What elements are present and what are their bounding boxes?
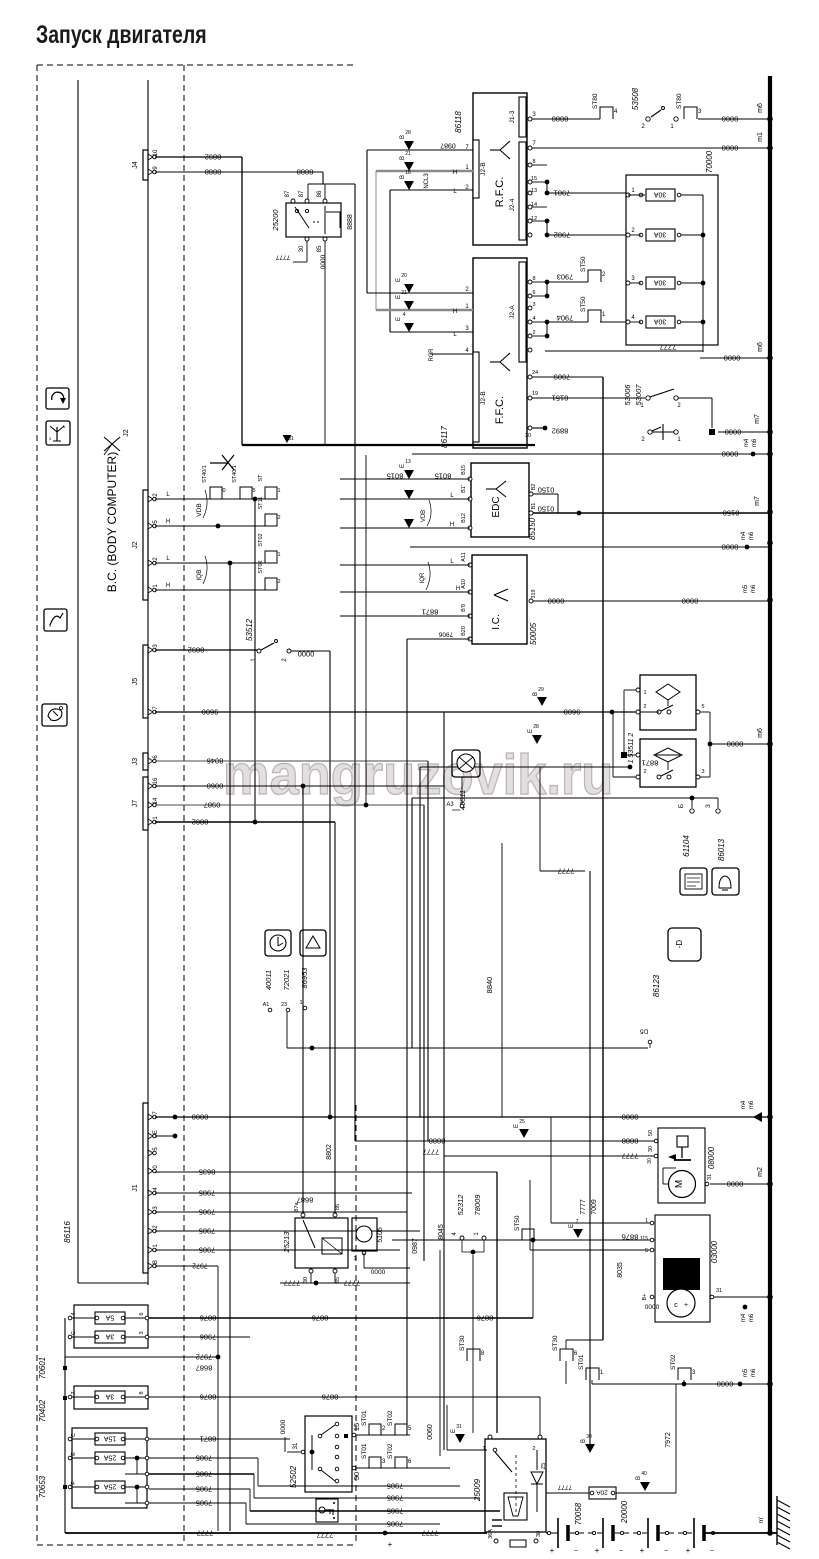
svg-text:50: 50 <box>352 1472 361 1480</box>
svg-text:5: 5 <box>252 488 255 494</box>
svg-text:ST80: ST80 <box>592 93 599 109</box>
svg-text:ST02: ST02 <box>387 1410 394 1426</box>
svg-text:H: H <box>453 170 457 176</box>
svg-text:7905: 7905 <box>196 1484 213 1493</box>
svg-text:8802: 8802 <box>192 817 209 826</box>
svg-text:0000: 0000 <box>280 1419 287 1434</box>
svg-text:53512: 53512 <box>245 618 254 641</box>
svg-text:28: 28 <box>405 130 411 136</box>
svg-text:Z5: Z5 <box>541 1463 547 1469</box>
svg-text:1: 1 <box>277 488 280 494</box>
svg-text:VDB: VDB <box>196 503 203 516</box>
svg-text:A3: A3 <box>446 802 454 808</box>
svg-text:+: + <box>550 1546 555 1555</box>
svg-text:7905: 7905 <box>199 1226 216 1235</box>
svg-text:70653: 70653 <box>38 1475 47 1498</box>
svg-text:0000: 0000 <box>722 143 739 152</box>
svg-text:7777: 7777 <box>622 1151 639 1160</box>
svg-text:8876: 8876 <box>322 1392 339 1401</box>
svg-text:1: 1 <box>299 1000 302 1006</box>
svg-text:A1: A1 <box>263 1002 270 1008</box>
svg-text:5A: 5A <box>105 1314 114 1321</box>
svg-text:21: 21 <box>405 151 411 157</box>
svg-text:9600: 9600 <box>202 707 219 716</box>
svg-text:0: 0 <box>222 488 225 494</box>
svg-text:0000: 0000 <box>717 1379 734 1388</box>
svg-text:c: c <box>674 1302 678 1309</box>
svg-text:IQR: IQR <box>420 572 426 583</box>
svg-text:08000: 08000 <box>707 1146 716 1169</box>
svg-text:20000: 20000 <box>620 1500 629 1524</box>
svg-text:-D: -D <box>675 940 684 949</box>
svg-text:3A: 3A <box>105 1333 114 1340</box>
svg-text:30A: 30A <box>653 191 666 198</box>
svg-text:8892: 8892 <box>552 426 569 435</box>
svg-text:ST80: ST80 <box>676 93 683 109</box>
svg-text:H: H <box>450 522 454 528</box>
svg-text:m4: m4 <box>744 438 750 447</box>
svg-text:B12: B12 <box>461 513 467 523</box>
svg-text:2: 2 <box>643 769 646 775</box>
svg-text:m6: m6 <box>749 1313 755 1322</box>
svg-text:Б: Б <box>678 804 685 808</box>
svg-text:61104: 61104 <box>682 835 691 857</box>
svg-text:m6: m6 <box>757 342 764 352</box>
svg-text:7777: 7777 <box>580 1199 587 1215</box>
svg-text:VDB: VDB <box>421 510 427 522</box>
svg-text:8888: 8888 <box>347 214 354 230</box>
svg-text:+: + <box>640 1546 645 1555</box>
svg-text:NCL3: NCL3 <box>424 173 430 189</box>
svg-text:H: H <box>456 586 460 592</box>
svg-text:8871: 8871 <box>642 758 659 767</box>
svg-text:m6: m6 <box>751 1368 757 1377</box>
svg-text:16: 16 <box>153 777 159 784</box>
svg-text:7777: 7777 <box>197 1528 214 1537</box>
svg-text:ST01: ST01 <box>361 1443 368 1459</box>
svg-text:0151: 0151 <box>552 393 569 402</box>
svg-text:7777: 7777 <box>344 1278 361 1287</box>
svg-text:0000: 0000 <box>548 596 565 605</box>
svg-text:D5: D5 <box>639 1028 648 1035</box>
svg-text:70000: 70000 <box>705 150 714 173</box>
svg-text:7906: 7906 <box>438 631 453 638</box>
svg-text:ST50: ST50 <box>580 296 587 312</box>
svg-text:ST11: ST11 <box>258 497 264 510</box>
svg-text:86953: 86953 <box>300 967 309 989</box>
svg-text:25200: 25200 <box>271 209 280 232</box>
svg-text:0000: 0000 <box>644 1303 659 1310</box>
svg-text:13: 13 <box>405 459 411 465</box>
svg-text:ST02: ST02 <box>387 1443 394 1459</box>
svg-text:+: + <box>686 1546 691 1555</box>
svg-text:7777: 7777 <box>317 1530 334 1539</box>
svg-text:7906: 7906 <box>200 1332 217 1341</box>
svg-text:25A: 25A <box>103 1454 116 1461</box>
svg-text:3: 3 <box>139 1331 145 1334</box>
svg-text:ST02: ST02 <box>258 560 264 573</box>
svg-text:0000: 0000 <box>722 449 739 458</box>
svg-text:31: 31 <box>288 436 294 442</box>
svg-text:50: 50 <box>648 1130 654 1136</box>
svg-text:ST40/1: ST40/1 <box>232 465 238 483</box>
svg-text:m6: m6 <box>751 584 757 593</box>
svg-text:4: 4 <box>71 1312 77 1315</box>
svg-text:0000: 0000 <box>724 353 741 362</box>
svg-text:10: 10 <box>153 149 159 156</box>
svg-text:8888: 8888 <box>297 167 314 176</box>
svg-text:0060: 0060 <box>427 1424 434 1440</box>
svg-text:8035: 8035 <box>617 1262 624 1278</box>
svg-text:0000: 0000 <box>682 596 699 605</box>
svg-text:ST01: ST01 <box>578 1354 585 1370</box>
svg-text:J1-3: J1-3 <box>509 110 516 123</box>
svg-text:C: C <box>71 1331 77 1335</box>
svg-text:5: 5 <box>701 704 704 710</box>
svg-text:m6: m6 <box>752 438 758 447</box>
svg-text:15: 15 <box>352 1423 361 1431</box>
svg-text:52312: 52312 <box>456 1194 465 1216</box>
svg-text:2: 2 <box>643 704 646 710</box>
svg-text:7905: 7905 <box>387 1519 404 1528</box>
svg-text:RCR: RCR <box>429 348 435 362</box>
svg-text:−: − <box>710 1548 714 1555</box>
svg-text:15A: 15A <box>103 1435 116 1442</box>
svg-text:8888: 8888 <box>429 1136 446 1145</box>
svg-text:8876: 8876 <box>622 1232 639 1241</box>
svg-text:86116: 86116 <box>63 1221 72 1243</box>
svg-text:7905: 7905 <box>199 1245 216 1254</box>
svg-text:20A: 20A <box>596 1489 608 1496</box>
svg-text:3: 3 <box>705 804 712 808</box>
svg-text:8888: 8888 <box>205 167 222 176</box>
svg-text:0150: 0150 <box>723 508 740 517</box>
svg-text:30A: 30A <box>653 318 666 325</box>
svg-text:1: 1 <box>643 690 646 696</box>
svg-text:8876: 8876 <box>200 1392 217 1401</box>
svg-text:7777: 7777 <box>284 1278 301 1287</box>
svg-text:I.C.: I.C. <box>491 614 502 630</box>
svg-text:B+: B+ <box>642 1294 648 1301</box>
svg-text:m5: m5 <box>743 584 749 593</box>
svg-text:7777: 7777 <box>422 1528 439 1537</box>
svg-text:78009: 78009 <box>473 1194 482 1216</box>
svg-text:4: 4 <box>403 312 406 318</box>
svg-text:86118: 86118 <box>454 111 463 133</box>
svg-text:53508: 53508 <box>631 87 640 110</box>
svg-text:70402: 70402 <box>38 1399 47 1422</box>
svg-text:0987: 0987 <box>440 142 456 149</box>
svg-text:50005: 50005 <box>529 622 538 645</box>
svg-text:28: 28 <box>533 724 539 730</box>
svg-text:85: 85 <box>317 245 323 252</box>
svg-text:m1: m1 <box>757 132 764 142</box>
svg-text:7905: 7905 <box>387 1481 404 1490</box>
svg-text:7902: 7902 <box>554 230 571 239</box>
svg-text:B1: B1 <box>531 503 537 510</box>
svg-text:6: 6 <box>532 290 535 296</box>
svg-text:m4: m4 <box>741 1313 747 1322</box>
svg-text:85150: 85150 <box>528 517 537 540</box>
svg-text:25: 25 <box>519 1119 525 1125</box>
svg-text:7905: 7905 <box>196 1498 213 1507</box>
svg-text:0000: 0000 <box>722 114 739 123</box>
svg-text:30A: 30A <box>653 231 666 238</box>
svg-text:8687: 8687 <box>196 1363 213 1372</box>
svg-text:J2-B: J2-B <box>480 391 487 404</box>
svg-text:8876: 8876 <box>312 1313 329 1322</box>
svg-text:52502: 52502 <box>289 1465 298 1488</box>
svg-text:H: H <box>453 309 457 315</box>
svg-text:15: 15 <box>531 176 537 182</box>
svg-text:7: 7 <box>71 1391 77 1394</box>
svg-text:7972: 7972 <box>196 1352 213 1361</box>
svg-text:0000: 0000 <box>298 649 315 658</box>
svg-text:86013: 86013 <box>717 838 726 861</box>
svg-text:30: 30 <box>525 433 531 439</box>
svg-text:−: − <box>619 1548 623 1555</box>
svg-text:8888: 8888 <box>622 1136 639 1145</box>
svg-text:25009: 25009 <box>473 1478 482 1502</box>
svg-text:21: 21 <box>401 290 407 296</box>
svg-text:7905: 7905 <box>196 1469 213 1478</box>
svg-text:H: H <box>166 583 170 589</box>
svg-text:8871: 8871 <box>200 1434 217 1443</box>
svg-text:87: 87 <box>299 190 305 197</box>
svg-text:7777: 7777 <box>557 1484 572 1491</box>
svg-text:8045: 8045 <box>438 1224 445 1240</box>
svg-text:8046: 8046 <box>207 756 224 765</box>
svg-text:ST02: ST02 <box>258 533 264 546</box>
svg-text:m': m' <box>758 1517 765 1524</box>
svg-text:8: 8 <box>532 159 535 165</box>
svg-text:87a: 87a <box>294 1201 300 1211</box>
svg-text:E: E <box>153 1130 159 1134</box>
svg-text:30A: 30A <box>653 279 666 286</box>
svg-text:0000: 0000 <box>727 739 744 748</box>
svg-text:F.F.C.: F.F.C. <box>494 396 506 424</box>
svg-text:0987: 0987 <box>412 1238 419 1254</box>
svg-text:0060: 0060 <box>207 781 224 790</box>
svg-text:H: H <box>166 519 170 525</box>
svg-text:18: 18 <box>405 170 411 176</box>
svg-text:86: 86 <box>317 190 323 197</box>
svg-text:m4: m4 <box>741 1100 747 1109</box>
svg-text:J1: J1 <box>132 1184 139 1192</box>
svg-text:7777: 7777 <box>660 342 677 351</box>
svg-text:0150: 0150 <box>538 485 555 494</box>
svg-text:J3: J3 <box>132 758 139 766</box>
svg-text:25213: 25213 <box>282 1231 291 1254</box>
svg-text:7777: 7777 <box>423 1147 440 1156</box>
svg-text:8892: 8892 <box>188 645 205 654</box>
svg-text:7905: 7905 <box>199 1188 216 1197</box>
svg-text:2: 2 <box>532 1446 535 1452</box>
svg-text:70058: 70058 <box>574 1502 583 1525</box>
svg-text:m7: m7 <box>754 496 761 506</box>
svg-text:36A: 36A <box>488 1529 494 1539</box>
svg-text:7009: 7009 <box>591 1199 598 1215</box>
svg-text:4: 4 <box>532 316 535 322</box>
svg-text:87: 87 <box>285 190 291 197</box>
svg-text:7777: 7777 <box>558 866 575 875</box>
svg-text:M: M <box>674 1180 685 1188</box>
svg-text:23: 23 <box>281 1002 287 1008</box>
svg-text:+: + <box>595 1546 600 1555</box>
svg-text:3A: 3A <box>105 1393 114 1400</box>
svg-text:Запуск двигателя: Запуск двигателя <box>36 21 207 49</box>
svg-text:IQB: IQB <box>196 569 203 580</box>
svg-text:J2: J2 <box>132 541 139 549</box>
svg-text:85: 85 <box>335 1277 341 1283</box>
svg-text:J2-A: J2-A <box>509 305 516 319</box>
svg-text:9600: 9600 <box>564 707 581 716</box>
svg-text:53006: 53006 <box>623 384 632 406</box>
svg-text:1: 1 <box>277 552 280 558</box>
svg-text:B20: B20 <box>461 626 467 636</box>
svg-text:14: 14 <box>153 797 159 804</box>
svg-text:m6: m6 <box>749 1100 755 1109</box>
svg-text:m4: m4 <box>741 531 747 540</box>
svg-text:13: 13 <box>531 188 537 194</box>
svg-text:31: 31 <box>456 1424 462 1430</box>
svg-text:8635: 8635 <box>199 1167 216 1176</box>
svg-text:8: 8 <box>139 1391 145 1394</box>
svg-text:0150: 0150 <box>538 504 555 513</box>
svg-text:J5: J5 <box>132 678 139 686</box>
svg-text:0000: 0000 <box>370 1268 385 1275</box>
svg-text:3: 3 <box>532 302 535 308</box>
svg-text:31: 31 <box>707 1174 713 1180</box>
svg-text:0000: 0000 <box>722 542 739 551</box>
svg-text:2: 2 <box>277 515 280 521</box>
svg-text:E: E <box>569 1224 575 1228</box>
svg-text:mangruzovik.ru: mangruzovik.ru <box>223 742 613 807</box>
svg-text:7905: 7905 <box>196 1453 213 1462</box>
svg-text:m2: m2 <box>757 1167 764 1177</box>
svg-text:m6: m6 <box>757 103 764 113</box>
svg-text:m5: m5 <box>743 1368 749 1377</box>
svg-text:7905: 7905 <box>199 1207 216 1216</box>
svg-text:B1': B1' <box>461 485 467 493</box>
svg-text:40011: 40011 <box>264 970 273 990</box>
svg-text:1: 1 <box>353 1256 356 1262</box>
svg-text:86123: 86123 <box>652 974 661 997</box>
svg-text:m7: m7 <box>754 414 761 424</box>
svg-text:8840: 8840 <box>485 977 494 994</box>
svg-text:5105: 5105 <box>377 1227 384 1243</box>
svg-text:7905: 7905 <box>387 1506 404 1515</box>
svg-text:7: 7 <box>576 1219 579 1225</box>
svg-text:8080: 8080 <box>552 114 569 123</box>
svg-text:31: 31 <box>293 1442 299 1449</box>
svg-text:m6: m6 <box>757 728 764 738</box>
svg-text:R.F.C.: R.F.C. <box>494 177 506 208</box>
svg-text:EDC: EDC <box>491 496 502 517</box>
svg-text:B2: B2 <box>531 484 537 491</box>
svg-text:ST50: ST50 <box>514 1215 521 1231</box>
svg-text:E: E <box>396 317 402 321</box>
svg-text:7904: 7904 <box>557 313 574 322</box>
svg-text:20: 20 <box>401 273 407 279</box>
svg-text:J2: J2 <box>123 429 130 437</box>
svg-text:C: C <box>71 1433 77 1437</box>
svg-text:0000: 0000 <box>192 1112 209 1121</box>
svg-text:J2-4: J2-4 <box>509 198 516 211</box>
svg-text:8: 8 <box>532 276 535 282</box>
svg-text:8876: 8876 <box>477 1313 494 1322</box>
svg-text:8015: 8015 <box>387 471 404 480</box>
svg-text:m6: m6 <box>749 531 755 540</box>
svg-text:7903: 7903 <box>557 272 574 281</box>
svg-text:−: − <box>574 1548 578 1555</box>
svg-text:0000: 0000 <box>622 1112 639 1121</box>
svg-text:7972: 7972 <box>192 1262 208 1269</box>
svg-text:8015: 8015 <box>435 471 452 480</box>
svg-text:+: + <box>388 1540 393 1549</box>
svg-text:24: 24 <box>532 370 538 376</box>
svg-text:30: 30 <box>303 1277 309 1283</box>
svg-text:30: 30 <box>299 245 305 252</box>
svg-text:A11: A11 <box>461 552 467 561</box>
svg-text:J4: J4 <box>132 161 139 169</box>
svg-text:0000: 0000 <box>320 254 327 269</box>
svg-text:7009: 7009 <box>554 372 571 381</box>
svg-text:40: 40 <box>641 1471 647 1477</box>
svg-text:31: 31 <box>716 1288 722 1294</box>
svg-text:30: 30 <box>648 1146 654 1152</box>
svg-text:7905: 7905 <box>387 1493 404 1502</box>
svg-text:30: 30 <box>647 1158 653 1164</box>
svg-text:30: 30 <box>586 1434 592 1440</box>
svg-text:+: + <box>684 1302 688 1309</box>
svg-text:1 53511 2: 1 53511 2 <box>628 733 635 764</box>
svg-text:19: 19 <box>532 391 538 397</box>
svg-text:03000: 03000 <box>710 1240 719 1263</box>
svg-text:0987: 0987 <box>204 800 221 809</box>
svg-text:2: 2 <box>532 330 535 336</box>
svg-text:29: 29 <box>538 687 544 693</box>
svg-text:6: 6 <box>139 1312 145 1315</box>
svg-text:0000: 0000 <box>725 427 742 436</box>
svg-text:B: B <box>153 1260 159 1264</box>
svg-text:B15: B15 <box>461 465 467 475</box>
svg-text:−: − <box>664 1548 668 1555</box>
svg-text:7972: 7972 <box>665 1432 672 1448</box>
svg-text:ST02: ST02 <box>670 1354 677 1370</box>
svg-text:115: 115 <box>640 1236 648 1242</box>
svg-text:B.C. (BODY COMPUTER): B.C. (BODY COMPUTER) <box>105 452 119 592</box>
svg-text:ST50: ST50 <box>580 256 587 272</box>
svg-text:8876: 8876 <box>200 1313 217 1322</box>
svg-text:ST01: ST01 <box>361 1410 368 1426</box>
svg-text:B'8: B'8 <box>461 604 467 612</box>
svg-text:30: 30 <box>536 1531 542 1537</box>
svg-text:86: 86 <box>335 1204 341 1210</box>
svg-text:8802: 8802 <box>326 1144 333 1160</box>
svg-text:ST40/1: ST40/1 <box>202 465 208 483</box>
svg-text:A10: A10 <box>461 579 467 589</box>
svg-text:72021: 72021 <box>282 970 291 991</box>
svg-text:70601: 70601 <box>38 1357 47 1379</box>
svg-text:8892: 8892 <box>205 152 222 161</box>
svg-text:8871: 8871 <box>422 607 439 616</box>
svg-text:319: 319 <box>531 589 537 598</box>
svg-text:7901: 7901 <box>554 188 571 197</box>
svg-text:J7: J7 <box>132 800 139 808</box>
svg-text:0000: 0000 <box>727 1179 744 1188</box>
svg-text:ST: ST <box>258 474 264 482</box>
